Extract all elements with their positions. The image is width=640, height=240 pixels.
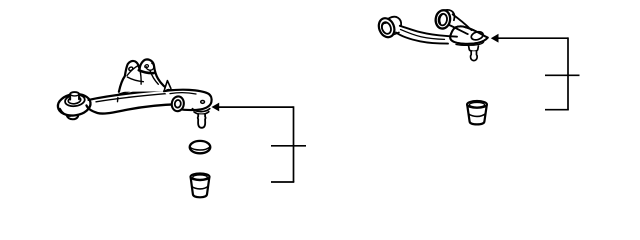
upper control arm: ball pad fill [450,26,488,44]
lower control arm: right pad outline [164,90,212,110]
upper control arm: ball stud collar [469,46,479,51]
lower control arm: web line 2 [132,85,155,93]
lower control arm: bracket left ear plate edge [127,66,138,76]
upper control arm: ball pad boss [470,30,484,41]
upper control arm: right bushing inner [438,13,448,26]
lower control arm: ball joint housing lower band [194,112,209,115]
washer [190,141,211,153]
lower control arm: web line 1 [119,86,146,94]
lower callout arrow head [212,103,220,112]
upper control arm: left bushing lower neck line [394,32,400,34]
lower control arm: pad small hole [201,100,205,103]
upper callout vertical line [567,37,569,109]
lower control arm: left bushing top pin [70,92,79,99]
lower control arm: upper bracket outline [119,59,171,91]
lower control arm: bracket right ear curl [144,63,154,70]
lower control arm: bracket web line inner [150,71,158,85]
lower control arm: bar chamfer line [96,93,171,102]
dust boot upper [467,101,487,124]
upper control arm: left bushing sleeve [389,17,401,25]
lower control arm: pad big hole inner [174,100,181,108]
upper control arm: left bushing inner arc [382,23,386,31]
lower control arm: fin [165,81,171,90]
lower control arm: pad inner face line [170,93,196,94]
lower control arm: bracket web line down [140,69,141,84]
lower control arm: left bushing outer [56,92,91,119]
lower callout mid tick [271,145,306,147]
upper control arm: main arm top edge [400,26,457,37]
upper control arm: ball stud [471,51,478,60]
lower control arm: bar tick [117,97,119,101]
upper callout mid tick [545,74,580,76]
upper control arm: main arm bottom edge [396,33,448,44]
lower control arm: main bar bottom edge [87,104,179,113]
lower control arm: left bushing inner ring [64,94,85,108]
lower control arm: ball joint housing upper band [192,109,209,112]
lower callout leader line [219,106,294,108]
dust boot lower [191,174,210,198]
upper control arm: right bushing outer [434,9,454,29]
lower control arm: pad big hole outer [171,96,185,112]
upper control arm: ball pad outline restroke [450,26,488,44]
upper control arm: arm chamfer [401,30,445,40]
upper control arm: pad lower lip [456,42,484,45]
upper control arm: right bushing inner arc [440,15,443,24]
lower control arm: bracket shoulder band [139,70,154,73]
lower control arm: left bushing inner lip [68,96,81,104]
upper control arm: right bushing neck [449,14,471,34]
lower callout vertical line [293,106,295,182]
lower control arm: main bar top edge [89,90,177,100]
upper callout bottom line [545,109,569,111]
lower control arm: bracket left ear hole [128,66,133,71]
upper control arm: left bushing outer [376,16,397,40]
upper control arm: left bushing inner [380,21,392,35]
lower callout bottom line [271,181,294,183]
lower control arm: bracket lower edge line [127,77,143,82]
lower control arm: ball stud [198,114,206,127]
upper callout arrow head [491,34,499,43]
upper callout leader line [498,37,568,39]
